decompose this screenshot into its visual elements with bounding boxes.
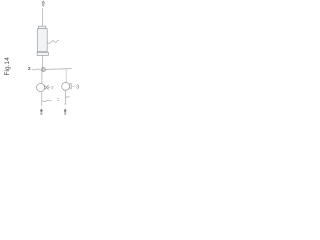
svg-text:3: 3: [76, 85, 79, 91]
svg-text:Fig.14: Fig.14: [4, 57, 11, 76]
svg-text:2: 2: [28, 66, 31, 71]
svg-text:2: 2: [51, 85, 54, 90]
